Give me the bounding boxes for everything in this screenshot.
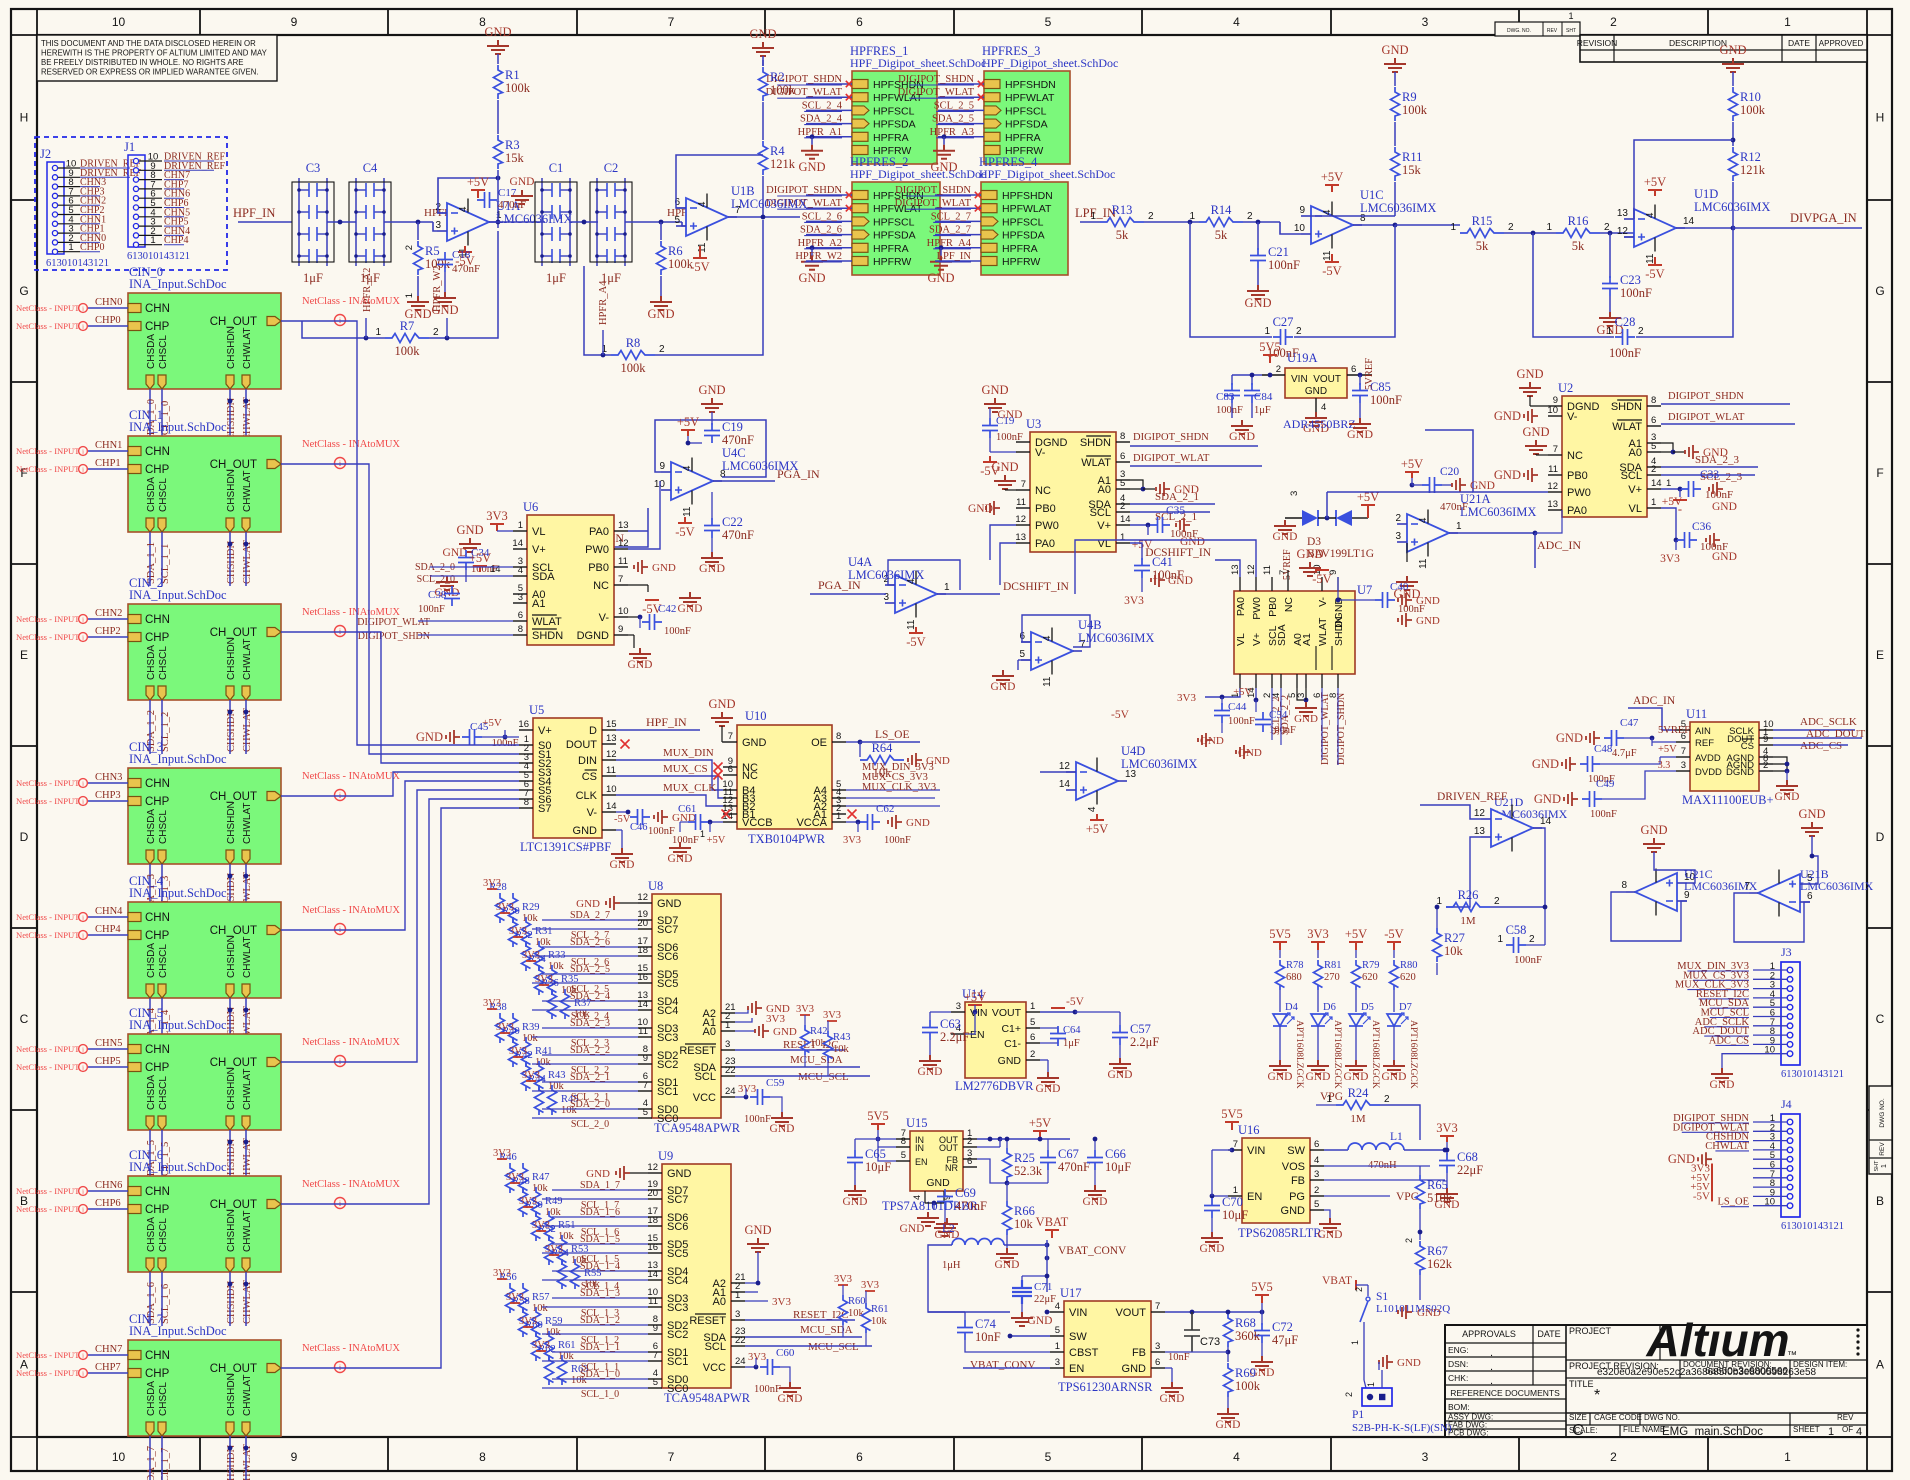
svg-text:GND: GND: [1516, 367, 1543, 381]
svg-text:REF: REF: [1695, 738, 1714, 749]
svg-text:1: 1: [68, 242, 73, 253]
svg-text:510k: 510k: [1427, 1191, 1453, 1205]
svg-text:100k: 100k: [395, 344, 421, 358]
svg-text:C44: C44: [1228, 701, 1247, 713]
svg-text:EN: EN: [1069, 1363, 1084, 1375]
svg-text:GND: GND: [906, 817, 930, 829]
svg-text:SDA_1_2: SDA_1_2: [580, 1315, 620, 1326]
svg-text:GND: GND: [1712, 501, 1737, 513]
svg-text:PB0: PB0: [588, 562, 609, 574]
svg-text:DIGIPOT_SHDN: DIGIPOT_SHDN: [898, 74, 974, 85]
svg-text:MUX_DIN: MUX_DIN: [663, 747, 714, 759]
svg-text:SDA_2_3: SDA_2_3: [570, 1018, 610, 1029]
svg-text:1: 1: [1055, 1341, 1060, 1352]
svg-text:-5V: -5V: [1384, 927, 1403, 941]
svg-text:DATE: DATE: [1537, 1329, 1560, 1339]
svg-text:U7: U7: [1357, 583, 1372, 597]
svg-text:HPF_Digipot_sheet.SchDoc: HPF_Digipot_sheet.SchDoc: [982, 56, 1118, 70]
svg-text:CH_OUT: CH_OUT: [210, 925, 257, 937]
svg-text:11: 11: [682, 506, 693, 517]
svg-text:1: 1: [1666, 478, 1671, 489]
svg-text:GND: GND: [1640, 823, 1667, 837]
svg-text:CHSDA: CHSDA: [146, 1217, 157, 1252]
svg-text:100nF: 100nF: [418, 604, 445, 615]
svg-text:CHP: CHP: [145, 321, 170, 333]
svg-text:G: G: [19, 284, 28, 298]
svg-text:GND: GND: [991, 460, 1018, 474]
svg-text:GND: GND: [1160, 1393, 1185, 1405]
svg-text:5k: 5k: [1116, 228, 1129, 242]
svg-text:CHWLAT: CHWLAT: [242, 937, 253, 978]
svg-text:2.2μF: 2.2μF: [1130, 1035, 1159, 1049]
svg-text:+5V: +5V: [1401, 457, 1423, 471]
svg-text:2: 2: [1610, 1450, 1617, 1464]
svg-text:C4: C4: [363, 161, 378, 175]
svg-text:100nF: 100nF: [996, 432, 1023, 443]
svg-text:-5V: -5V: [1111, 709, 1130, 721]
svg-text:4: 4: [682, 465, 693, 471]
svg-text:CHN: CHN: [145, 303, 170, 315]
svg-text:9: 9: [291, 1450, 298, 1464]
svg-text:SHEET: SHEET: [1793, 1425, 1820, 1434]
svg-text:L2: L2: [942, 1223, 955, 1235]
svg-text:GND: GND: [1108, 1069, 1133, 1081]
svg-text:15k: 15k: [1402, 163, 1422, 177]
svg-text:A0: A0: [713, 1296, 726, 1308]
svg-text:INA_Input.SchDoc: INA_Input.SchDoc: [129, 277, 227, 291]
svg-text:3: 3: [1422, 1450, 1429, 1464]
svg-text:2: 2: [1763, 760, 1768, 771]
svg-text:2: 2: [1508, 222, 1514, 233]
svg-text:SC2: SC2: [667, 1329, 688, 1341]
svg-text:SDA_1_7: SDA_1_7: [146, 1446, 157, 1480]
svg-text:CHP6: CHP6: [95, 1198, 121, 1209]
svg-text:10: 10: [112, 15, 126, 29]
svg-text:GND: GND: [667, 1168, 692, 1180]
svg-text:16: 16: [518, 719, 529, 730]
svg-text:CHSDA: CHSDA: [146, 809, 157, 844]
svg-text:INA_Input.SchDoc: INA_Input.SchDoc: [129, 1324, 227, 1338]
svg-text:V-: V-: [1035, 447, 1046, 459]
svg-text:3: 3: [1155, 1341, 1160, 1352]
svg-text:DGND: DGND: [577, 630, 609, 642]
svg-text:3V3: 3V3: [766, 1013, 785, 1025]
svg-text:1: 1: [1568, 11, 1573, 21]
svg-text:.: .: [1490, 1361, 1493, 1373]
svg-text:GND: GND: [1200, 735, 1224, 747]
svg-text:CHSHDN: CHSHDN: [226, 708, 237, 752]
svg-text:3V3: 3V3: [772, 1296, 791, 1308]
svg-text:5k: 5k: [1572, 239, 1585, 253]
svg-text:HPF_IN: HPF_IN: [646, 715, 687, 729]
svg-text:SC0: SC0: [657, 1113, 678, 1125]
svg-text:TXB0104PWR: TXB0104PWR: [748, 832, 826, 846]
svg-text:DIGIPOT_SHDN: DIGIPOT_SHDN: [1133, 432, 1209, 443]
svg-text:U19A: U19A: [1287, 351, 1318, 365]
svg-text:12: 12: [606, 749, 617, 760]
svg-text:11: 11: [1016, 497, 1026, 508]
svg-text:DGND: DGND: [1726, 767, 1754, 778]
svg-text:GND: GND: [708, 697, 735, 711]
svg-text:i: i: [82, 1064, 84, 1071]
svg-text:CH_OUT: CH_OUT: [210, 791, 257, 803]
svg-text:2: 2: [433, 327, 439, 338]
svg-text:i: i: [82, 1206, 84, 1213]
svg-text:CHWLAT: CHWLAT: [242, 471, 253, 512]
svg-text:10μF: 10μF: [1222, 1208, 1248, 1222]
svg-text:5: 5: [1651, 441, 1656, 452]
svg-text:PGA_IN: PGA_IN: [777, 467, 820, 481]
svg-text:HPF_IN: HPF_IN: [233, 206, 275, 220]
svg-text:SC5: SC5: [657, 978, 678, 990]
svg-text:613010143121: 613010143121: [46, 258, 109, 269]
svg-text:+5V: +5V: [1321, 170, 1343, 184]
svg-text:U1B: U1B: [731, 184, 755, 198]
svg-text:-5V: -5V: [614, 814, 631, 825]
svg-text:11: 11: [1418, 558, 1429, 569]
svg-text:3: 3: [435, 220, 441, 231]
svg-text:5VREF: 5VREF: [1364, 358, 1375, 390]
svg-text:9: 9: [659, 461, 665, 472]
svg-text:A0: A0: [703, 1026, 716, 1038]
svg-text:CHSDA: CHSDA: [146, 943, 157, 978]
svg-text:6: 6: [1351, 364, 1356, 375]
svg-text:2: 2: [1344, 1392, 1354, 1397]
svg-text:16: 16: [647, 1242, 658, 1253]
svg-text:PA0: PA0: [1235, 597, 1247, 616]
svg-text:C46: C46: [630, 822, 648, 833]
svg-text:SC7: SC7: [657, 924, 678, 936]
svg-text:VCCB: VCCB: [742, 817, 773, 829]
svg-text:R60: R60: [848, 1296, 866, 1307]
svg-text:GND: GND: [678, 603, 703, 615]
svg-text:3V3: 3V3: [1177, 692, 1196, 704]
svg-text:7: 7: [728, 731, 733, 742]
svg-text:5: 5: [1045, 1450, 1052, 1464]
svg-text:VL: VL: [532, 526, 545, 538]
svg-text:121k: 121k: [1740, 163, 1766, 177]
svg-text:12: 12: [618, 538, 629, 549]
svg-text:C84: C84: [1254, 391, 1273, 403]
svg-text:NetClass - INAtoMUX: NetClass - INAtoMUX: [302, 1179, 400, 1190]
svg-text:GND: GND: [1296, 547, 1323, 561]
svg-text:.: .: [1490, 1347, 1493, 1359]
svg-text:+5V: +5V: [1662, 496, 1683, 508]
svg-text:9: 9: [643, 1053, 648, 1064]
svg-text:CHP: CHP: [145, 632, 170, 644]
svg-text:GND: GND: [576, 898, 600, 910]
svg-text:S1: S1: [1376, 1291, 1388, 1303]
svg-text:HPFWLAT: HPFWLAT: [1002, 203, 1052, 215]
svg-text:SDA_1_5: SDA_1_5: [580, 1234, 620, 1245]
svg-text:C83: C83: [1216, 391, 1235, 403]
svg-text:360k: 360k: [1235, 1329, 1261, 1343]
svg-text:6: 6: [1030, 1032, 1035, 1043]
svg-text:SCL_2_4: SCL_2_4: [802, 100, 843, 111]
svg-text:NC: NC: [593, 580, 609, 592]
svg-text:CHWLAT: CHWLAT: [242, 639, 253, 680]
svg-text:5: 5: [674, 215, 680, 226]
svg-text:CH_OUT: CH_OUT: [210, 1057, 257, 1069]
svg-text:HPFSCL: HPFSCL: [1002, 216, 1044, 228]
svg-text:C1: C1: [549, 161, 564, 175]
svg-text:V-: V-: [587, 807, 598, 819]
svg-text:1: 1: [1546, 222, 1552, 233]
svg-text:SDA_2_7: SDA_2_7: [570, 910, 610, 921]
svg-text:i: i: [82, 1352, 84, 1359]
svg-text:GND: GND: [628, 659, 653, 671]
svg-text:OE: OE: [811, 737, 827, 749]
svg-text:11: 11: [1548, 464, 1558, 475]
svg-text:GND: GND: [699, 561, 725, 575]
svg-text:SC3: SC3: [667, 1302, 688, 1314]
svg-text:HPFR_W2: HPFR_W2: [795, 251, 842, 262]
svg-text:SCL_2_5: SCL_2_5: [934, 100, 974, 111]
svg-text:NetClass - INPUT: NetClass - INPUT: [16, 1204, 80, 1214]
svg-text:14: 14: [1120, 514, 1131, 525]
svg-text:4: 4: [1321, 402, 1326, 413]
svg-text:121k: 121k: [770, 157, 796, 171]
svg-text:10k: 10k: [871, 1316, 888, 1327]
svg-text:VIN: VIN: [1069, 1307, 1087, 1319]
svg-text:100k: 100k: [1740, 103, 1766, 117]
svg-text:GND: GND: [900, 1223, 925, 1235]
svg-text:620: 620: [1400, 972, 1416, 983]
svg-text:613010143121: 613010143121: [127, 251, 190, 262]
svg-text:TITLE: TITLE: [1569, 1379, 1594, 1389]
svg-text:10k: 10k: [1014, 1217, 1034, 1231]
svg-text:13: 13: [1474, 826, 1486, 837]
svg-text:1: 1: [1784, 1450, 1791, 1464]
svg-text:i: i: [82, 305, 84, 312]
svg-text:DIGIPOT_WLAT: DIGIPOT_WLAT: [898, 87, 975, 98]
svg-text:SCL: SCL: [1621, 470, 1642, 482]
svg-text:LMC6036IMX: LMC6036IMX: [496, 212, 572, 226]
svg-text:7: 7: [653, 1350, 658, 1361]
svg-text:L1: L1: [1390, 1131, 1403, 1143]
svg-text:E: E: [20, 648, 28, 662]
svg-text:CHP3: CHP3: [95, 790, 121, 801]
svg-text:R43: R43: [548, 1070, 566, 1081]
svg-text:GND: GND: [981, 383, 1008, 397]
svg-text:ADC_CS: ADC_CS: [1800, 740, 1842, 752]
svg-text:OF: OF: [1842, 1425, 1853, 1434]
svg-text:24: 24: [725, 1086, 736, 1097]
svg-text:C17: C17: [498, 187, 517, 199]
svg-text:2: 2: [404, 245, 415, 250]
svg-text:CHWLAT: CHWLAT: [242, 540, 253, 584]
svg-text:U4C: U4C: [722, 446, 746, 460]
svg-text:1: 1: [1828, 1426, 1834, 1438]
svg-text:GND: GND: [1382, 1071, 1407, 1083]
svg-text:SC1: SC1: [657, 1086, 678, 1098]
svg-text:S7: S7: [538, 803, 551, 815]
svg-text:3V3: 3V3: [796, 1004, 814, 1015]
svg-text:13: 13: [1547, 499, 1558, 510]
svg-text:3V3: 3V3: [738, 1084, 756, 1095]
svg-text:R10: R10: [1740, 90, 1761, 104]
svg-text:SC6: SC6: [657, 951, 678, 963]
svg-text:VOS: VOS: [1282, 1161, 1305, 1173]
svg-text:6: 6: [1651, 415, 1656, 426]
svg-text:3V3: 3V3: [519, 1196, 537, 1207]
svg-text:ENG:: ENG:: [1448, 1345, 1469, 1355]
svg-text:S2B-PH-K-S(LF)(SN): S2B-PH-K-S(LF)(SN): [1352, 1422, 1452, 1434]
svg-text:R3: R3: [505, 138, 520, 152]
svg-text:.: .: [1490, 1375, 1493, 1387]
svg-text:C40: C40: [1390, 581, 1409, 593]
svg-text:2: 2: [1296, 326, 1302, 337]
svg-text:GND: GND: [1470, 480, 1495, 492]
svg-text:ADC_SCLK: ADC_SCLK: [1800, 716, 1857, 728]
svg-text:12: 12: [1059, 761, 1071, 772]
svg-text:GND: GND: [484, 25, 511, 39]
svg-text:C67: C67: [1058, 1147, 1079, 1161]
svg-text:10k: 10k: [545, 1327, 562, 1338]
svg-text:GND: GND: [770, 1123, 795, 1135]
svg-text:-5V: -5V: [690, 260, 709, 274]
svg-text:V-: V-: [1317, 596, 1329, 606]
svg-text:GND: GND: [510, 176, 535, 188]
svg-text:9: 9: [1763, 734, 1768, 745]
svg-text:CHSCL: CHSCL: [158, 335, 169, 369]
svg-text:GND: GND: [1494, 409, 1521, 423]
svg-text:V+: V+: [1628, 484, 1642, 496]
svg-text:GND: GND: [1416, 615, 1440, 627]
svg-text:NetClass - INPUT: NetClass - INPUT: [16, 464, 80, 474]
svg-text:1: 1: [700, 829, 705, 839]
svg-text:6: 6: [856, 1450, 863, 1464]
svg-text:10k: 10k: [535, 1057, 552, 1068]
svg-text:6: 6: [856, 15, 863, 29]
svg-text:3V3: 3V3: [483, 878, 501, 889]
svg-text:GND: GND: [995, 1259, 1020, 1271]
svg-text:LTC1391CS#PBF: LTC1391CS#PBF: [520, 840, 611, 854]
svg-text:CHSHDN: CHSHDN: [226, 1067, 237, 1110]
svg-text:SDA_2_0: SDA_2_0: [570, 1099, 610, 1110]
svg-text:C27: C27: [1273, 315, 1294, 329]
svg-text:SCL_1_0: SCL_1_0: [581, 1389, 619, 1400]
svg-text:DIGIPOT_SHDN: DIGIPOT_SHDN: [766, 185, 842, 196]
svg-text:GND: GND: [1522, 425, 1549, 439]
svg-text:AVDD: AVDD: [1695, 753, 1721, 764]
svg-text:A0: A0: [1098, 484, 1111, 496]
svg-text:100nF: 100nF: [744, 1114, 771, 1125]
svg-text:ADR4550BRZ: ADR4550BRZ: [1283, 417, 1356, 431]
svg-text:5: 5: [1314, 1199, 1319, 1210]
svg-text:1: 1: [375, 327, 381, 338]
svg-text:13: 13: [618, 520, 629, 531]
svg-text:R15: R15: [1472, 214, 1493, 228]
svg-text:V+: V+: [1097, 520, 1111, 532]
svg-text:GND: GND: [1281, 1205, 1306, 1217]
svg-text:i: i: [82, 1046, 84, 1053]
svg-text:VL: VL: [1235, 633, 1247, 646]
svg-text:U5: U5: [529, 703, 544, 717]
svg-text:VIN: VIN: [970, 1007, 988, 1019]
svg-text:CHWLAT: CHWLAT: [242, 1211, 253, 1252]
svg-text:470nF: 470nF: [722, 528, 754, 542]
svg-text:R12: R12: [1740, 150, 1761, 164]
svg-text:R29: R29: [522, 902, 540, 913]
svg-text:i: i: [82, 616, 84, 623]
svg-text:R27: R27: [1444, 931, 1465, 945]
svg-text:GND: GND: [1798, 807, 1825, 821]
svg-text:470nF: 470nF: [452, 263, 480, 275]
svg-text:RESET: RESET: [679, 1045, 716, 1057]
svg-text:+5V: +5V: [707, 835, 726, 846]
svg-text:R16: R16: [1568, 214, 1589, 228]
svg-text:100nF: 100nF: [1228, 716, 1255, 727]
svg-text:CHSCL: CHSCL: [158, 1076, 169, 1110]
svg-text:C35: C35: [1166, 505, 1185, 517]
svg-text:HPFR_W2: HPFR_W2: [432, 265, 443, 312]
svg-text:C49: C49: [1596, 778, 1615, 790]
svg-text:613010143121: 613010143121: [1781, 1221, 1844, 1232]
svg-text:HPF_Digipot_sheet.SchDoc: HPF_Digipot_sheet.SchDoc: [850, 56, 986, 70]
svg-text:MAX11100EUB+: MAX11100EUB+: [1682, 793, 1774, 807]
svg-text:NetClass - INAtoMUX: NetClass - INAtoMUX: [302, 296, 400, 307]
svg-text:GND: GND: [998, 1055, 1022, 1067]
svg-text:GND: GND: [926, 1177, 950, 1189]
svg-text:1: 1: [1189, 211, 1195, 222]
svg-text:SC3: SC3: [657, 1032, 678, 1044]
svg-text:4: 4: [1418, 517, 1429, 523]
svg-text:2: 2: [1314, 1185, 1319, 1196]
svg-text:-5V: -5V: [1322, 264, 1341, 278]
svg-text:CHSDA: CHSDA: [146, 334, 157, 369]
svg-text:10μF: 10μF: [1105, 1160, 1131, 1174]
svg-text:R31: R31: [535, 926, 553, 937]
svg-text:DVDD: DVDD: [1695, 767, 1722, 778]
svg-text:8: 8: [524, 797, 529, 808]
svg-text:H: H: [20, 111, 29, 125]
svg-text:i: i: [82, 932, 84, 939]
svg-text:NC: NC: [1035, 485, 1051, 497]
svg-text:GND: GND: [1381, 43, 1408, 57]
svg-text:DESCRIPTION: DESCRIPTION: [1669, 38, 1727, 48]
svg-text:i: i: [82, 448, 84, 455]
svg-text:U8: U8: [648, 879, 663, 893]
svg-text:VBAT_CONV: VBAT_CONV: [1058, 1245, 1127, 1257]
svg-text:11: 11: [606, 765, 616, 776]
svg-text:2: 2: [1395, 513, 1401, 524]
svg-text:INA_Input.SchDoc: INA_Input.SchDoc: [129, 1018, 227, 1032]
svg-text:D: D: [20, 830, 29, 844]
svg-text:CHSHDN: CHSHDN: [226, 397, 237, 441]
svg-text:C: C: [20, 1012, 29, 1026]
svg-text:GND: GND: [1712, 551, 1737, 563]
svg-text:NetClass - INPUT: NetClass - INPUT: [16, 796, 80, 806]
svg-text:1μH: 1μH: [942, 1260, 961, 1271]
svg-text:VL: VL: [1629, 503, 1642, 515]
svg-text:EN: EN: [970, 1029, 985, 1041]
svg-text:C57: C57: [1130, 1022, 1151, 1036]
svg-text:C62: C62: [876, 803, 894, 815]
svg-text:SIZE: SIZE: [1569, 1413, 1587, 1422]
svg-text:GND: GND: [1534, 792, 1561, 806]
svg-text:SHDN: SHDN: [1611, 401, 1642, 413]
svg-text:1: 1: [1366, 1382, 1376, 1387]
svg-text:CHP5: CHP5: [95, 1056, 121, 1067]
svg-text:HPFSHDN: HPFSHDN: [1005, 79, 1056, 91]
svg-text:GND: GND: [1168, 575, 1193, 587]
svg-text:6: 6: [1120, 451, 1125, 462]
svg-text:DCSHIFT_IN: DCSHIFT_IN: [1003, 581, 1070, 593]
svg-text:4: 4: [1233, 15, 1240, 29]
svg-text:DIGIPOT_SHDN: DIGIPOT_SHDN: [895, 185, 971, 196]
svg-text:V-: V-: [599, 612, 610, 624]
